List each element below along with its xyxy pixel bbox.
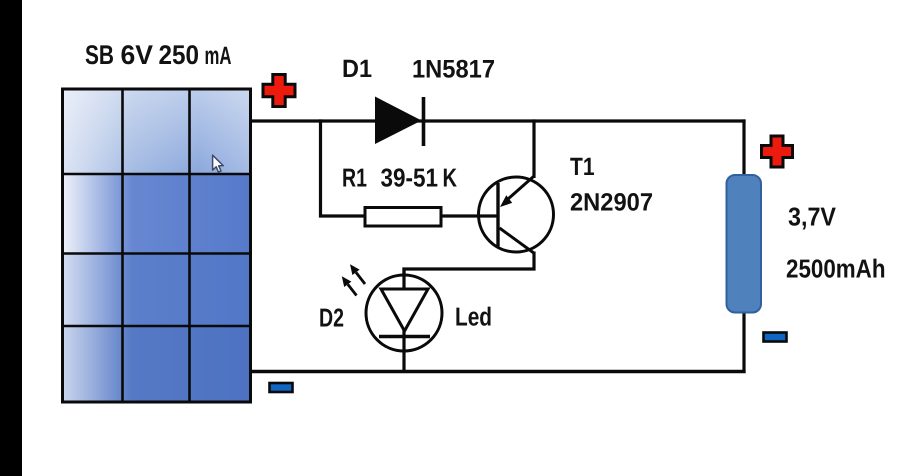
svg-text:D2: D2 bbox=[319, 303, 344, 333]
label R1 39-51 K bbox=[342, 163, 457, 193]
svg-text:mA: mA bbox=[205, 42, 232, 70]
wire: top rail from panel to battery bbox=[249, 119, 746, 122]
transistor T1 (PNP) bbox=[479, 177, 554, 254]
svg-text:39-51: 39-51 bbox=[381, 163, 439, 193]
minus terminal (battery) bbox=[764, 333, 787, 342]
wire: LED vertical through to bottom rail bbox=[402, 268, 405, 372]
svg-text:2500mAh: 2500mAh bbox=[786, 254, 886, 284]
svg-text:R1: R1 bbox=[342, 163, 367, 193]
LED emission arrow 1 bbox=[350, 264, 365, 284]
plus terminal (battery) bbox=[762, 136, 793, 167]
left black sidebar bbox=[0, 0, 22, 476]
svg-text:6V: 6V bbox=[121, 40, 154, 70]
svg-text:T1: T1 bbox=[570, 153, 595, 181]
diode D1 bbox=[375, 97, 424, 147]
wire: bottom rail bbox=[249, 370, 746, 374]
svg-text:K: K bbox=[443, 163, 458, 193]
wire: R1 to transistor base bbox=[364, 214, 498, 217]
LED D2 bbox=[366, 275, 442, 351]
LED emission arrow 2 bbox=[342, 276, 357, 295]
wire: T1 collector down, left, to LED top bbox=[404, 252, 534, 278]
wire: battery bottom to bottom rail bbox=[742, 311, 745, 373]
resistor R1 bbox=[365, 208, 441, 227]
svg-text:Led: Led bbox=[455, 302, 492, 332]
minus terminal (panel) bbox=[270, 383, 293, 392]
svg-text:SB: SB bbox=[85, 40, 114, 70]
svg-text:3,7V: 3,7V bbox=[788, 202, 837, 232]
plus terminal (panel) bbox=[263, 75, 295, 107]
wire: right rail down to battery top bbox=[742, 119, 745, 176]
solar panel SB bbox=[63, 89, 251, 402]
wire: branch from top rail down to R1 bbox=[321, 119, 367, 216]
svg-text:D1: D1 bbox=[342, 55, 372, 83]
battery 3.7V bbox=[727, 175, 762, 313]
solar panel SB label bbox=[85, 40, 232, 70]
mouse cursor bbox=[213, 155, 224, 172]
svg-text:250: 250 bbox=[159, 40, 200, 70]
svg-text:1N5817: 1N5817 bbox=[412, 56, 495, 84]
wire: top rail down to T1 emitter bbox=[532, 119, 535, 178]
svg-text:2N2907: 2N2907 bbox=[570, 189, 653, 217]
